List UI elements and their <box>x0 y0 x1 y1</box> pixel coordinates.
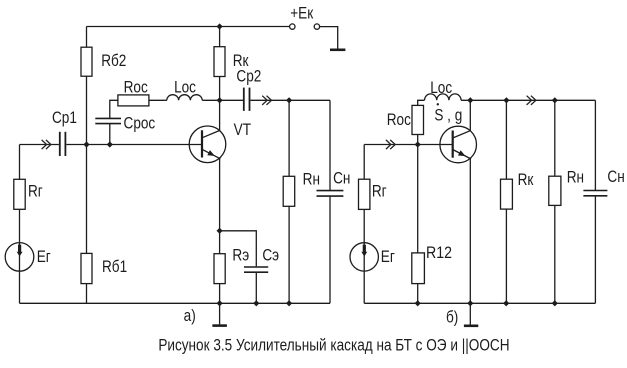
svg-text:+Ек: +Ек <box>290 4 313 23</box>
svg-text:Ег: Ег <box>381 248 395 267</box>
svg-text:Rг: Rг <box>28 182 43 201</box>
svg-text:Ср1: Ср1 <box>52 109 77 128</box>
svg-text:R12: R12 <box>426 244 452 263</box>
svg-text:Roc: Roc <box>124 78 148 97</box>
svg-text:Loc: Loc <box>430 78 452 97</box>
svg-text:Срос: Срос <box>124 114 156 133</box>
svg-text:VT: VT <box>234 120 252 139</box>
svg-text:Rб1: Rб1 <box>102 257 127 276</box>
svg-text:Rн: Rн <box>567 168 584 187</box>
svg-text:Ег: Ег <box>37 248 51 267</box>
svg-text:Сэ: Сэ <box>262 246 279 265</box>
svg-text:б): б) <box>446 308 458 327</box>
svg-text:Ср2: Ср2 <box>236 67 261 86</box>
svg-text:Rг: Rг <box>372 182 387 201</box>
svg-text:Loc: Loc <box>174 78 196 97</box>
svg-text:Roc: Roc <box>387 111 411 130</box>
svg-text:S , g: S , g <box>434 106 462 125</box>
svg-text:Сн: Сн <box>607 168 624 187</box>
svg-text:Сн: Сн <box>333 169 350 188</box>
svg-text:Рисунок 3.5 Усилительный каска: Рисунок 3.5 Усилительный каскад на БТ с … <box>158 336 509 355</box>
svg-text:Rн: Rн <box>303 170 320 189</box>
svg-text:Rэ: Rэ <box>232 246 249 265</box>
svg-text:а): а) <box>184 307 196 326</box>
svg-text:Rб2: Rб2 <box>101 52 126 71</box>
svg-text:Rк: Rк <box>518 171 534 190</box>
